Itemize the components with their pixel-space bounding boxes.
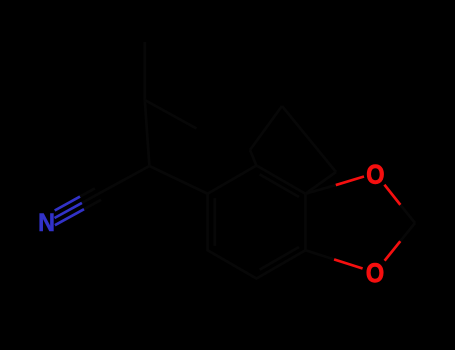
bond R1 to O1: red half	[336, 177, 364, 186]
fused ring bond Cb to R1	[305, 172, 336, 194]
methyl top vertical C3 up	[143, 42, 146, 100]
C1-C2 bond dark	[98, 166, 149, 194]
nitrile blue halves (N side)	[55, 203, 82, 218]
svg-text:O: O	[366, 160, 384, 190]
fused ring bond T to Ca	[250, 106, 282, 150]
bond O2 to R2: red half	[334, 259, 363, 268]
double bond tick L1-L2	[213, 198, 216, 246]
double bond tick T-R1	[260, 174, 299, 197]
nitrile dark halves (C side) of triple bond	[82, 194, 98, 203]
fused ring bond to T	[250, 150, 257, 167]
ethyl: C2 up to CH2 and CH3 vertical	[145, 100, 150, 166]
bond O1 to apex: red half	[384, 185, 400, 205]
benzene ring	[208, 166, 306, 279]
bond O2 to R2: dark half	[305, 250, 334, 259]
methyl up-right from C2	[145, 100, 197, 129]
double bond tick B-R2	[260, 247, 299, 270]
bond apex to O2: red half	[385, 241, 401, 261]
bond apex to O2: dark half	[400, 223, 415, 241]
fused ring bond Cmid to Cb	[309, 139, 336, 172]
svg-text:O: O	[366, 259, 384, 289]
bond R1 to O1: dark half	[305, 185, 335, 194]
bond ring L1 to C2	[149, 166, 207, 194]
svg-text:N: N	[38, 209, 55, 237]
fused ring bond Ca to Cmid	[282, 106, 309, 139]
bond O1 to apex: dark half	[400, 205, 415, 223]
